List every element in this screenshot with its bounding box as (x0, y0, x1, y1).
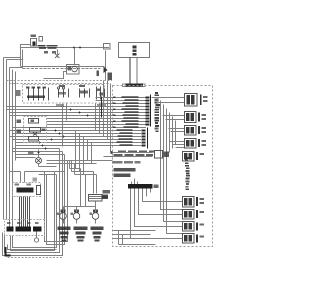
wire: bottom-left nested loop inner run (8, 245, 57, 250)
buzzer BZ1 below CN3 (34, 238, 38, 242)
wire: lamp leads (39, 150, 57, 167)
label: lamp designator (28, 152, 34, 155)
connector J5 (183, 152, 205, 162)
wire: harness from CB1 (129, 58, 131, 84)
connector J4 (185, 139, 207, 149)
wire: drops into CN3 right side (45, 172, 47, 224)
wire: neutral return double run (21, 48, 23, 69)
ground: chassis corner bond (6, 247, 11, 256)
thermostat TH1 right of relays (97, 87, 105, 100)
connector CN1: harness header bar (123, 84, 146, 86)
wire: crossing-zone horizontal runs (13, 149, 113, 164)
node: group 2 tap dots (51, 130, 65, 141)
connector J1 (compressor plug) (185, 94, 208, 107)
connector J7 (183, 210, 205, 220)
wire: dashed bottom edge run (8, 257, 63, 259)
output row header: terminal strip labels (114, 151, 155, 156)
wire: CN4 fan-out drops (131, 179, 183, 239)
wire: output row feeds (104, 153, 153, 157)
wire: dashed return runs (7, 81, 113, 84)
ground: G1 symbol cluster (58, 227, 71, 242)
motor M2 (fan) (73, 213, 80, 220)
label: K3 designator (102, 195, 109, 200)
thermistor RT1 with bracket (67, 65, 80, 75)
wire: CN2 feed from above (10, 172, 65, 183)
wire: RT1 leads (44, 72, 67, 79)
connector J8 (183, 222, 205, 232)
wire: plug tail (21, 45, 31, 48)
lamp DS1 (drum light) (36, 158, 42, 164)
connector J3 (185, 126, 207, 136)
label: text under switch bank (56, 104, 64, 107)
connector P1b (aux plug) (39, 37, 43, 42)
connector J9 (183, 234, 205, 244)
pin marks on board edge group 1 (113, 97, 116, 129)
label: MACHINE CONTROL vertical text (155, 92, 160, 132)
connector P1 (power cord plug) (31, 39, 37, 47)
wire: input row group 2 to control board (10, 131, 142, 146)
wire: input row group 1 to control board (7, 98, 147, 128)
node: lamp feed junction (38, 152, 40, 154)
motor M3 (auger) (92, 213, 99, 220)
node: junction on L1 (73, 47, 75, 49)
timer T1 (left component stack) (24, 117, 47, 143)
connector J2 (185, 112, 207, 123)
switch assembly SW1 (console switch bank) (23, 85, 105, 104)
switch S2 pair inside bank (59, 89, 69, 98)
wire: K3 leads (64, 172, 97, 207)
connector header bar CN5 (group 1 pins) (150, 95, 152, 127)
label: board pins left column (103, 190, 111, 199)
wire: lower box internal runs (113, 231, 156, 245)
ground: G2 symbol cluster (74, 227, 88, 242)
ground: G3 symbol cluster (91, 227, 104, 242)
connector P2 (line disconnect) (104, 44, 111, 50)
label: mid terminal row (113, 161, 141, 163)
label: switch box left label (16, 90, 21, 96)
node: crossing junction dots (39, 142, 47, 150)
fuse F1: inline X symbol (55, 54, 60, 59)
label: wire color codes (114, 168, 136, 177)
wire: dark feeder drop to board rows (101, 97, 103, 118)
control box CB1 (top right display board) (119, 43, 150, 58)
label: CODE vertical text right side (185, 157, 190, 190)
wire: ribbon cable below CN2 (20, 197, 30, 227)
label: BACME CONT wire label on L1 (38, 45, 58, 54)
label: pin name labels group 2 (117, 129, 133, 146)
wire: board outputs to right bus (152, 98, 185, 234)
node: output row plug tick (111, 151, 113, 154)
wire: crossing-zone vertical drops (63, 81, 113, 175)
wire: bus taps (4, 58, 23, 68)
label: CN2 labels (15, 184, 20, 186)
wire: drop from L1 (74, 48, 76, 65)
connector header bar CN6 (group 2 pins) (147, 128, 149, 149)
wire: bundle to lower-left harness (3, 149, 97, 256)
connector CN4: fan-out header (128, 184, 153, 188)
motor M1 (pump) (60, 213, 67, 220)
node: group 1 tap dots (62, 106, 105, 126)
relay K3 (bottom center) (89, 195, 103, 202)
label: CN3 tiny labels (7, 222, 39, 224)
connector CN2 (upper door harness) (13, 183, 41, 197)
node: junction on L1 (79, 47, 81, 49)
connector CN3 (lower harness header) (5, 220, 45, 236)
label: P1 designator (31, 35, 37, 37)
label: aux tag above CN2 (33, 178, 38, 182)
wire: left ground bus verticals (4, 58, 16, 228)
wire: main supply line L1 (21, 47, 105, 49)
connector J6 (183, 197, 205, 208)
machine control board U1: dashed enclosure (113, 86, 213, 247)
label: pin name labels group 1 (122, 96, 139, 128)
switch S3 pair inside bank (80, 89, 90, 98)
capacitor C1 marks (97, 71, 100, 77)
switch S5 small aux box (155, 151, 163, 159)
diode D1 vertical element (105, 51, 107, 81)
